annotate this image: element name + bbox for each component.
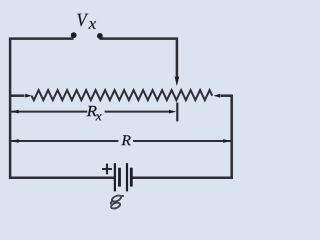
dimension line R right segment with arrow: [133, 139, 231, 143]
dimension line R left segment with arrow: [11, 139, 118, 143]
label script-E EMF symbol: [110, 194, 123, 209]
battery EMF source: plate long 1 (positive): [114, 163, 116, 191]
label R: [121, 135, 130, 145]
wire wiper stem vertical: [176, 38, 179, 79]
label Rx: subscript x: [96, 114, 102, 120]
node terminal dot left of Vx gap: [71, 32, 77, 38]
label Rx: letter R: [87, 106, 97, 116]
arrowhead at resistor left terminal: [25, 94, 32, 98]
wire top-right segment from Vx terminal to wiper: [100, 37, 179, 40]
wire right vertical branch: [230, 95, 233, 179]
battery EMF source: plate short 1: [118, 168, 121, 187]
node terminal dot right of Vx gap: [97, 33, 103, 39]
battery EMF source: plate short 2: [130, 168, 133, 187]
wire bottom-left segment to battery: [9, 177, 114, 180]
tick mark at wiper position ending Rx span: [176, 103, 178, 122]
wire resistor right lead: [221, 94, 233, 97]
wiper arrowhead onto resistor: [175, 77, 180, 87]
arrowhead at resistor right terminal: [214, 94, 221, 98]
label Vx: letter V: [77, 14, 88, 27]
wire bottom-right segment from battery: [132, 177, 233, 180]
battery polarity plus sign: [102, 164, 112, 175]
label Vx: subscript x: [88, 21, 95, 29]
battery EMF source: plate long 2: [126, 163, 128, 191]
dimension line Rx right segment with arrow: [105, 110, 177, 114]
wire left vertical branch: [9, 38, 12, 179]
wire top-left segment to Vx terminal: [9, 37, 74, 40]
resistor R slide-wire zigzag element: [32, 90, 213, 100]
dimension line Rx left segment with arrow: [11, 110, 87, 114]
wire resistor left lead: [10, 94, 24, 97]
